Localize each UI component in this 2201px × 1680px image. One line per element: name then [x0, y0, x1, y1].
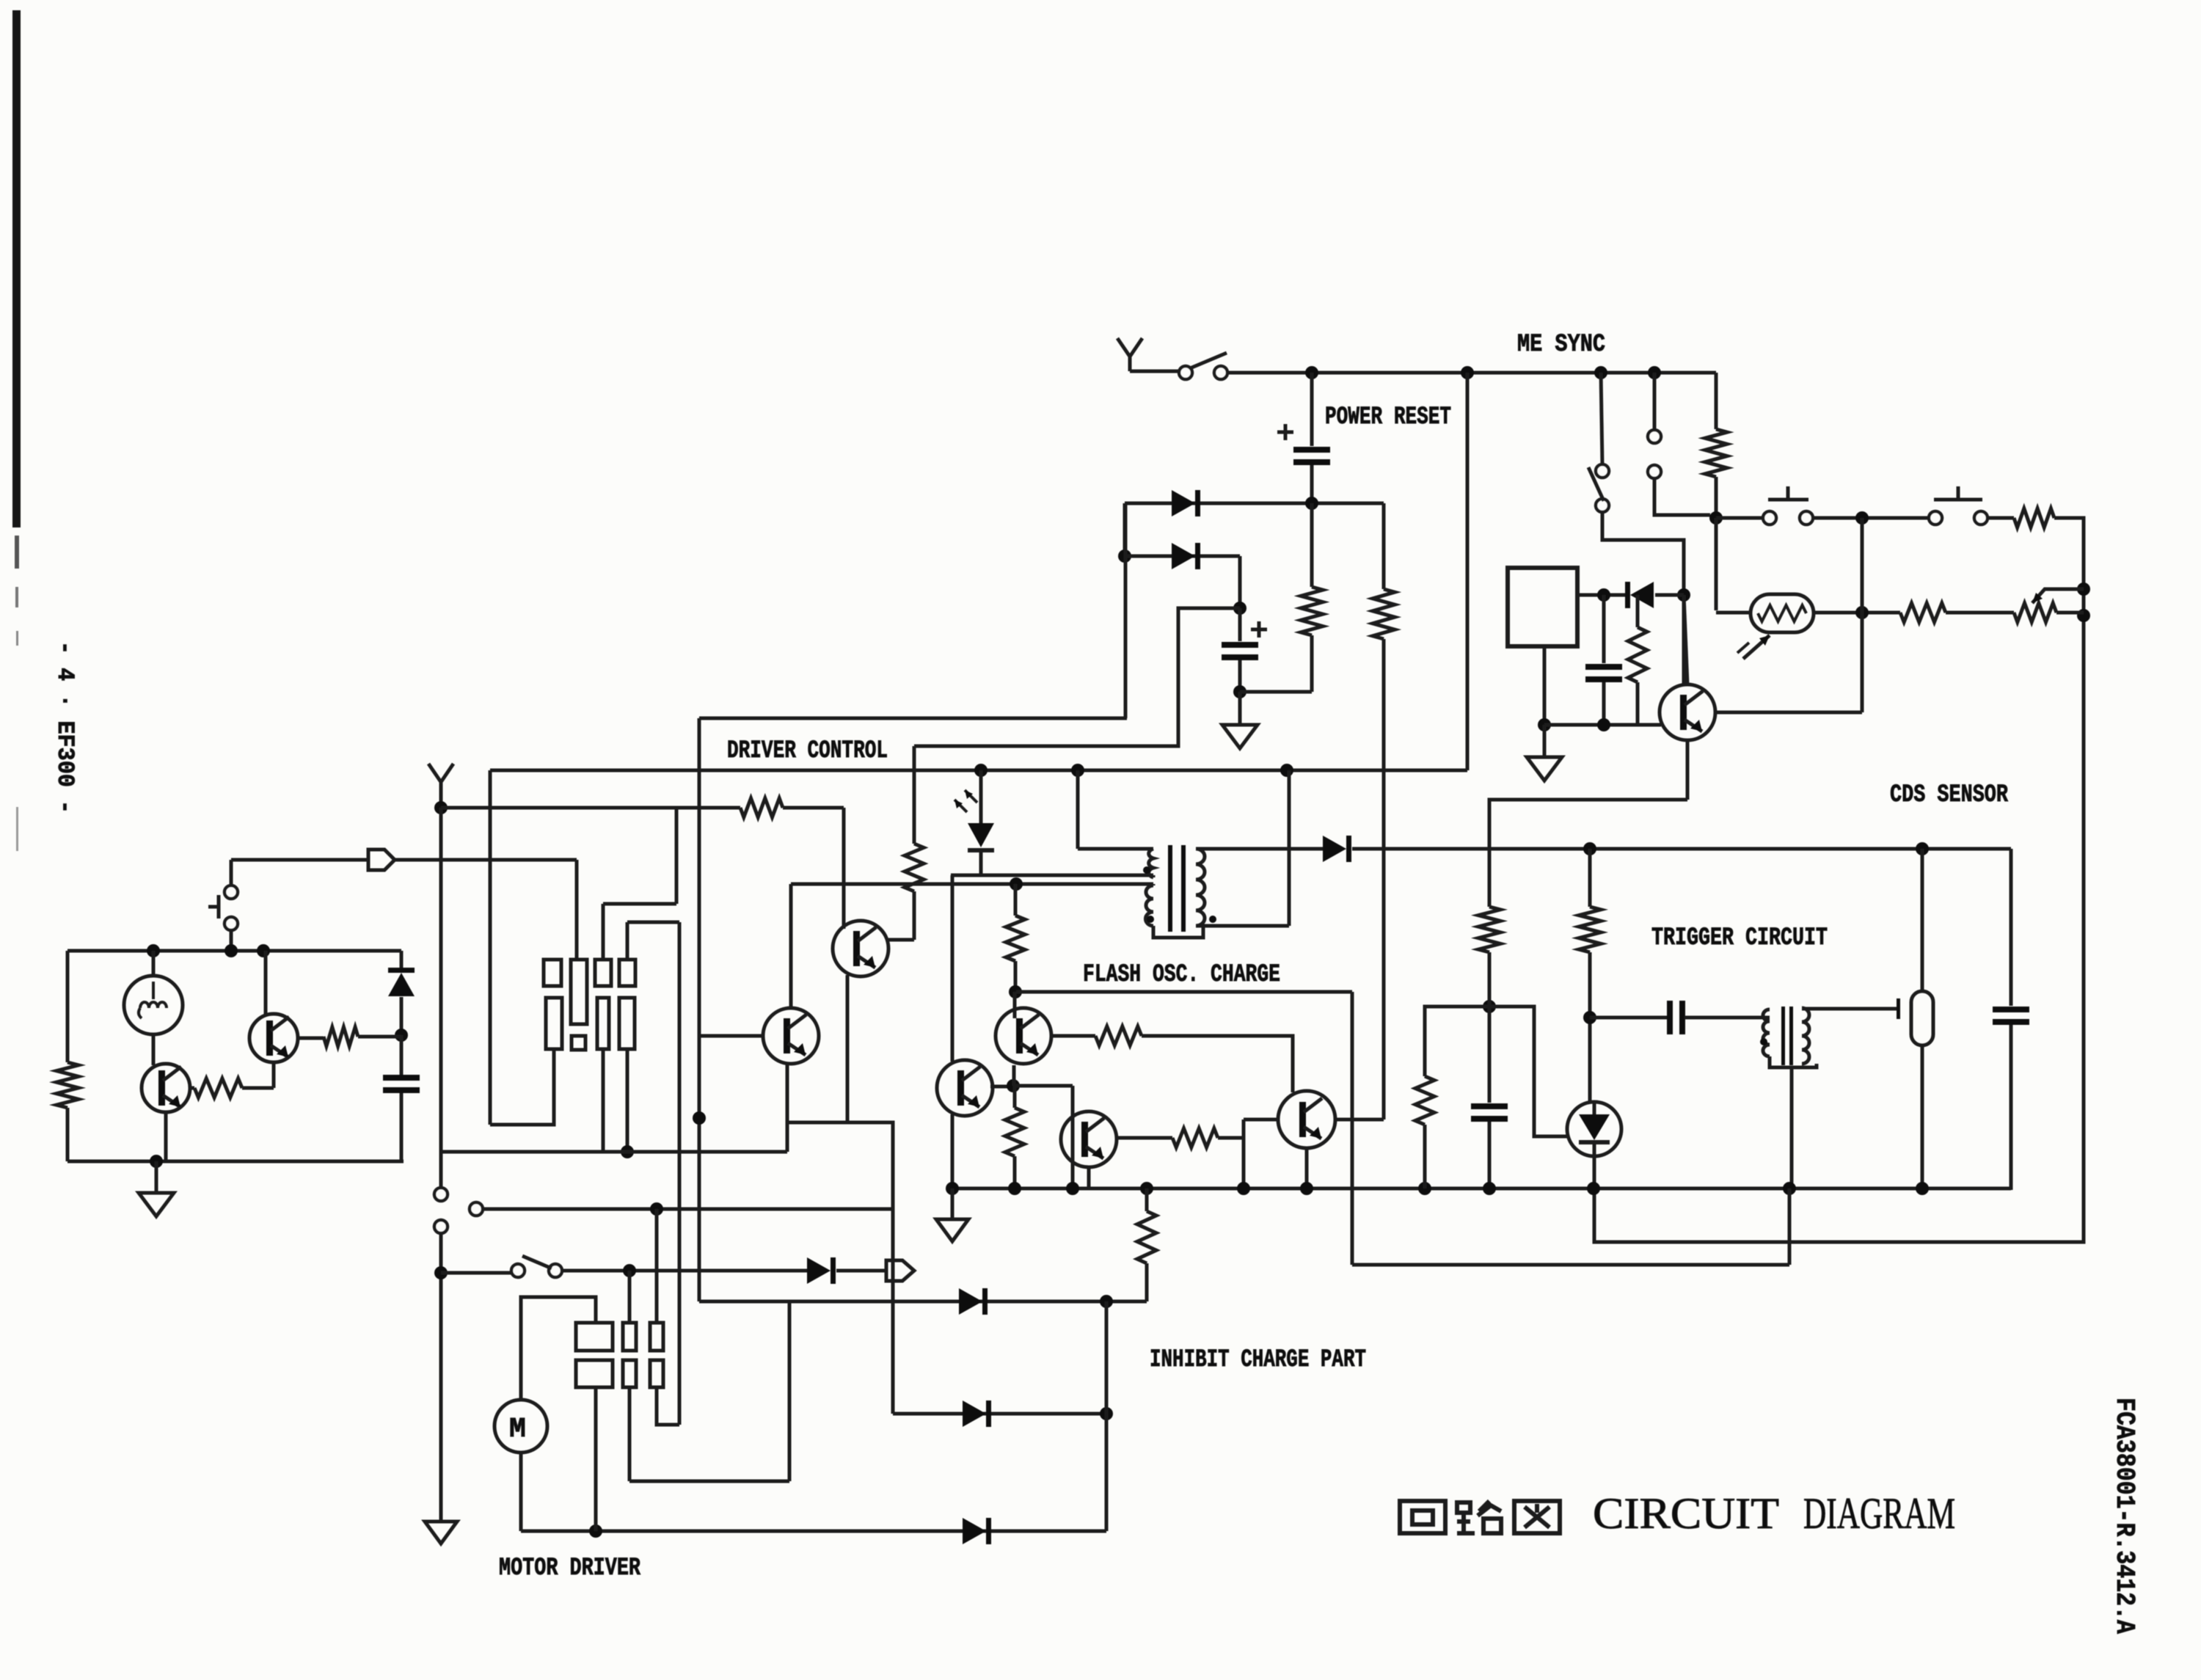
svg-text:INHIBIT CHARGE PART: INHIBIT CHARGE PART: [1150, 1346, 1366, 1374]
svg-text:TRIGGER CIRCUIT: TRIGGER CIRCUIT: [1651, 924, 1828, 952]
svg-text:- 4 · EF300 -: - 4 · EF300 -: [51, 641, 79, 814]
svg-text:ME SYNC: ME SYNC: [1517, 331, 1605, 359]
svg-text:CIRCUIT: CIRCUIT: [1593, 1489, 1779, 1538]
svg-text:FCA38001-R.3412.A: FCA38001-R.3412.A: [2109, 1398, 2139, 1634]
svg-text:CDS SENSOR: CDS SENSOR: [1890, 781, 2008, 809]
svg-text:DRIVER CONTROL: DRIVER CONTROL: [727, 737, 888, 765]
svg-text:MOTOR DRIVER: MOTOR DRIVER: [499, 1555, 640, 1582]
svg-text:DIAGRAM: DIAGRAM: [1803, 1489, 1955, 1538]
svg-text:POWER RESET: POWER RESET: [1325, 403, 1451, 431]
svg-text:FLASH OSC. CHARGE: FLASH OSC. CHARGE: [1083, 961, 1280, 989]
svg-text:M: M: [509, 1414, 526, 1445]
